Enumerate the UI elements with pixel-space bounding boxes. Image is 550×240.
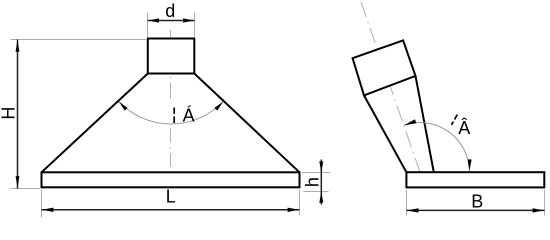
tilt angle arc (side view): [404, 119, 472, 171]
svg-text:B: B: [471, 192, 483, 212]
dimension h extension lines: [302, 173, 330, 192]
hood right slope (front view): [194, 74, 299, 173]
dimension d extension lines: [148, 13, 195, 38]
dimension H extension lines: [11, 40, 147, 189]
angle label A-circumflex: [458, 118, 470, 138]
dimension B line and arrows: [407, 208, 545, 212]
dimension B extension lines: [407, 190, 545, 216]
dimension L label: [166, 187, 176, 207]
angle centerline dash (side view): [452, 115, 458, 125]
hood stub (front view): [148, 39, 195, 74]
dimension B label: [471, 192, 483, 212]
tilted stub (side view): [353, 40, 416, 95]
dimension L line and arrows: [42, 208, 300, 212]
apex angle arc (front view): [119, 102, 223, 124]
centerline of front view (upper segment): [170, 30, 172, 103]
body left edge (side view): [364, 95, 406, 172]
dimension L extension lines: [42, 190, 300, 218]
dimension H line and arrows: [16, 40, 20, 189]
svg-text:d: d: [165, 1, 175, 21]
dimension d line and arrows: [148, 18, 195, 22]
base plate (side view): [406, 172, 544, 187]
angle centerline dash (front view): [173, 108, 175, 125]
centerline of side view (tilted): [361, 2, 420, 172]
svg-text:h: h: [303, 177, 323, 187]
body right edge (side view): [416, 76, 434, 172]
dimension d label: [165, 1, 175, 21]
hood left slope (front view): [42, 74, 148, 173]
svg-text:Á: Á: [183, 106, 195, 126]
svg-text:L: L: [166, 187, 176, 207]
dimension h label: [303, 177, 323, 187]
svg-text:H: H: [0, 107, 19, 120]
svg-text:Â: Â: [458, 118, 470, 138]
dimension H label: [0, 107, 19, 120]
centerline of front view (lower segment): [170, 129, 172, 172]
base plate (front view): [42, 172, 300, 187]
angle label A-acute: [183, 106, 195, 126]
dimension h line and arrows: [319, 160, 323, 205]
